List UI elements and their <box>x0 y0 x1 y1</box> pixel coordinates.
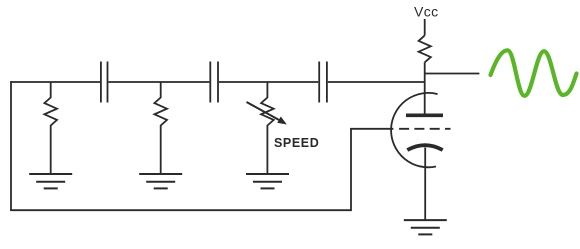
capacitor C2 <box>210 62 218 103</box>
wire top bus segment 4 <box>328 81 425 83</box>
svg-text:SPEED: SPEED <box>274 136 319 150</box>
wire feedback riser <box>350 129 352 211</box>
resistor R2 <box>154 82 167 174</box>
capacitor C1 <box>101 62 108 103</box>
ground G2 <box>139 174 182 188</box>
wire cathode lead <box>424 148 426 221</box>
ground G4 <box>404 220 447 234</box>
output sine wave <box>491 50 577 96</box>
wire bottom feedback <box>10 209 351 211</box>
wire top bus segment 3 <box>219 81 318 83</box>
tube V1 envelope <box>391 93 438 167</box>
tube grid (dashed) <box>399 128 450 130</box>
wire plate lead <box>424 62 426 113</box>
ground G1 <box>29 174 72 188</box>
resistor R4 (plate load) <box>419 35 431 62</box>
svg-text:Vcc: Vcc <box>414 3 439 19</box>
wire grid lead <box>350 128 393 130</box>
capacitor C3 <box>319 62 327 103</box>
variable resistor R3 (SPEED) <box>261 82 274 174</box>
resistor R1 <box>44 82 57 174</box>
wire top bus segment 2 <box>108 81 209 83</box>
potentiometer arrow <box>247 102 287 125</box>
wire output <box>425 73 480 75</box>
wire top bus segment 1 <box>11 81 100 83</box>
wire left feedback vertical <box>10 81 12 210</box>
Vcc supply lead <box>424 19 426 35</box>
tube plate bar <box>406 114 443 118</box>
ground G3 <box>246 174 289 188</box>
tube cathode <box>407 145 442 150</box>
